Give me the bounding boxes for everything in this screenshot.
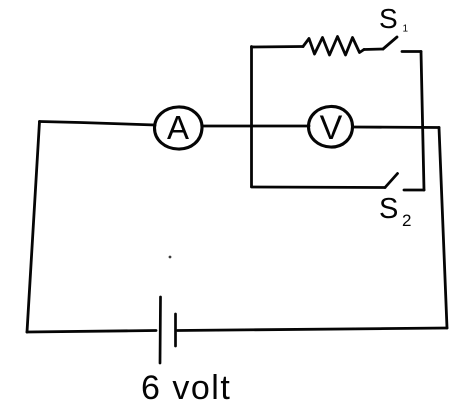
svg-text:S: S [379,3,398,34]
svg-text:1: 1 [403,24,409,35]
node J1: junction vertical between parallel branches [250,47,253,187]
stray ink speck [169,256,172,259]
battery BT1 long plate (positive) [159,297,162,363]
wire: bottom horizontal, right of battery [178,328,448,331]
wire: left vertical of outer loop [27,122,40,333]
wire: main horizontal, voltmeter to right side [353,126,440,129]
battery BT1 short plate (negative) [174,314,177,346]
svg-text:2: 2 [402,211,411,230]
switch S2 blade (open) [385,174,398,188]
svg-text:V: V [320,109,343,147]
wire: top branch lead-in to resistor [252,45,304,48]
wire: main horizontal, ammeter to voltmeter [202,125,309,128]
wire: main horizontal, left segment to ammeter [40,122,156,126]
resistor R1 zigzag [303,37,364,56]
switch S2 fixed contact wire [404,189,424,192]
svg-text:6 volt: 6 volt [141,369,231,407]
voltmeter U2 circle [309,106,353,147]
switch S1 fixed contact wire [402,50,421,53]
wire: bottom branch from junction [252,186,386,189]
wire: right vertical of outer loop [439,128,447,329]
wire: resistor to switch S1 [364,48,383,51]
switch S1 blade (open) [383,37,397,49]
wire: bottom horizontal, left of battery [27,331,156,333]
wire: right vertical of parallel section [421,52,424,191]
svg-text:S: S [379,193,398,225]
ammeter U1 circle [155,107,203,149]
svg-text:A: A [167,109,189,146]
